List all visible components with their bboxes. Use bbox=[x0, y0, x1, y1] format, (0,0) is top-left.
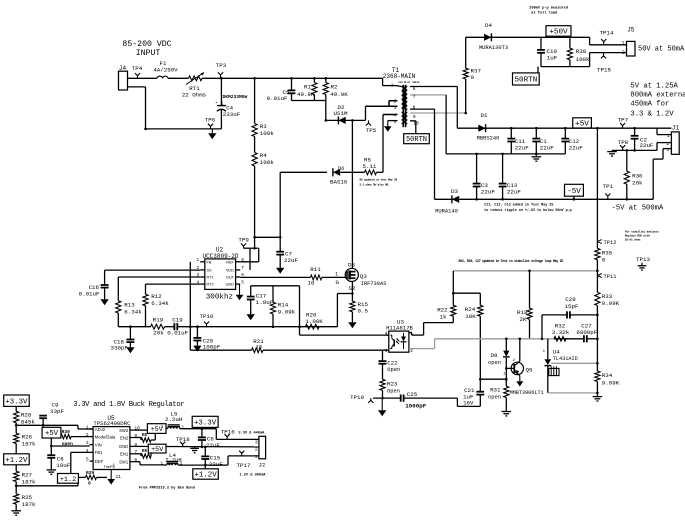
svg-text:0: 0 bbox=[602, 256, 606, 263]
svg-text:3.3 & 1.2V: 3.3 & 1.2V bbox=[630, 110, 674, 118]
svg-text:to reduce ripple on +/-5V to b: to reduce ripple on +/-5V to below 50mV … bbox=[484, 208, 572, 213]
svg-text:0.5: 0.5 bbox=[358, 308, 369, 315]
svg-text:49.9K: 49.9K bbox=[330, 91, 348, 98]
svg-text:-5V: -5V bbox=[567, 188, 581, 196]
svg-text:22uF: 22uF bbox=[481, 189, 495, 196]
svg-text:R38: R38 bbox=[576, 48, 587, 55]
svg-text:16V: 16V bbox=[463, 400, 474, 407]
svg-text:DEF: DEF bbox=[95, 459, 104, 464]
svg-text:Replace R35 with: Replace R35 with bbox=[625, 233, 650, 237]
svg-text:4A/250V: 4A/250V bbox=[153, 67, 178, 74]
svg-text:22uF: 22uF bbox=[209, 461, 223, 468]
svg-text:9: 9 bbox=[413, 114, 416, 120]
svg-text:3: 3 bbox=[255, 439, 258, 445]
svg-text:22uF: 22uF bbox=[640, 142, 654, 149]
svg-text:REF: REF bbox=[226, 260, 234, 264]
svg-text:3: 3 bbox=[385, 349, 388, 354]
svg-text:5.11: 5.11 bbox=[363, 163, 377, 170]
svg-text:1: 1 bbox=[221, 101, 224, 107]
svg-text:187k: 187k bbox=[22, 479, 36, 486]
svg-text:R11: R11 bbox=[310, 266, 321, 273]
svg-text:R23: R23 bbox=[387, 380, 398, 387]
svg-text:233uF: 233uF bbox=[223, 111, 241, 118]
svg-text:22 Ohms: 22 Ohms bbox=[182, 92, 206, 99]
svg-text:300khz: 300khz bbox=[206, 293, 233, 301]
svg-text:800mA externa: 800mA externa bbox=[630, 91, 685, 99]
svg-text:1: 1 bbox=[335, 272, 338, 278]
svg-text:50RTN: 50RTN bbox=[406, 136, 427, 144]
svg-text:TP10: TP10 bbox=[200, 313, 214, 320]
svg-text:845k: 845k bbox=[21, 418, 35, 425]
svg-text:4: 4 bbox=[385, 331, 388, 336]
svg-text:R25: R25 bbox=[22, 494, 33, 501]
svg-text:C19: C19 bbox=[172, 317, 183, 324]
svg-text:+5V: +5V bbox=[45, 430, 59, 438]
svg-text:3.3V and 1.8V Buck Regulator: 3.3V and 1.8V Buck Regulator bbox=[73, 401, 184, 409]
svg-text:TP17: TP17 bbox=[237, 462, 251, 469]
svg-text:RT2: RT2 bbox=[207, 283, 214, 287]
svg-text:5: 5 bbox=[394, 119, 397, 125]
svg-text:1: 1 bbox=[161, 425, 164, 430]
svg-text:Open: Open bbox=[387, 388, 400, 394]
svg-text:R27: R27 bbox=[22, 472, 33, 479]
svg-text:3: 3 bbox=[394, 105, 397, 111]
svg-text:100k: 100k bbox=[576, 56, 590, 63]
svg-text:TP11: TP11 bbox=[604, 274, 617, 280]
svg-text:+1.2V: +1.2V bbox=[195, 472, 218, 480]
svg-text:FB: FB bbox=[207, 260, 212, 264]
svg-text:0: 0 bbox=[88, 481, 91, 487]
svg-text:9.09k: 9.09k bbox=[278, 309, 296, 316]
svg-text:G: G bbox=[336, 279, 340, 286]
svg-text:INPUT: INPUT bbox=[136, 49, 161, 58]
svg-text:R24: R24 bbox=[465, 306, 476, 313]
svg-text:C22: C22 bbox=[387, 359, 398, 366]
svg-text:J2: J2 bbox=[258, 462, 265, 469]
svg-text:8: 8 bbox=[413, 104, 416, 110]
svg-text:R29: R29 bbox=[86, 470, 95, 476]
svg-text:R9: R9 bbox=[142, 450, 148, 454]
svg-text:MMBT3906LT1: MMBT3906LT1 bbox=[510, 390, 544, 396]
svg-text:0.01uF: 0.01uF bbox=[167, 330, 188, 337]
svg-text:TP12: TP12 bbox=[604, 240, 617, 246]
svg-text:TP8: TP8 bbox=[618, 139, 629, 146]
svg-text:49.9K: 49.9K bbox=[297, 91, 315, 98]
svg-text:MURA130T3: MURA130T3 bbox=[479, 45, 508, 51]
svg-text:+3.3V: +3.3V bbox=[194, 420, 217, 428]
svg-text:R36: R36 bbox=[632, 173, 643, 180]
svg-text:4: 4 bbox=[394, 113, 397, 119]
svg-text:1000pF: 1000pF bbox=[405, 403, 426, 410]
svg-text:0: 0 bbox=[471, 74, 475, 81]
svg-text:+50V: +50V bbox=[549, 29, 568, 37]
svg-text:1: 1 bbox=[86, 424, 89, 430]
svg-text:US1M: US1M bbox=[334, 110, 348, 117]
svg-text:33pF: 33pF bbox=[50, 408, 64, 415]
svg-text:R26: R26 bbox=[22, 434, 33, 441]
svg-text:200mV p-p measured: 200mV p-p measured bbox=[529, 6, 568, 11]
svg-text:330pF: 330pF bbox=[111, 345, 129, 352]
svg-text:IRF730AS: IRF730AS bbox=[361, 281, 387, 287]
svg-text:RT1: RT1 bbox=[207, 276, 214, 280]
svg-text:10: 10 bbox=[256, 345, 262, 351]
svg-text:6.34k: 6.34k bbox=[124, 308, 142, 315]
svg-text:D8: D8 bbox=[491, 352, 498, 359]
svg-text:7: 7 bbox=[241, 266, 244, 271]
svg-text:+5V: +5V bbox=[151, 446, 164, 454]
svg-text:VIN: VIN bbox=[95, 442, 102, 447]
svg-text:Q5: Q5 bbox=[526, 366, 533, 373]
svg-text:For stability analysis: For stability analysis bbox=[625, 229, 660, 233]
svg-text:R14: R14 bbox=[278, 302, 289, 309]
svg-text:TP15: TP15 bbox=[597, 67, 611, 74]
svg-text:50RTN: 50RTN bbox=[515, 77, 538, 85]
svg-text:2: 2 bbox=[622, 50, 625, 56]
svg-text:1k: 1k bbox=[440, 313, 447, 320]
svg-text:R8: R8 bbox=[142, 434, 148, 438]
svg-text:EN1: EN1 bbox=[120, 452, 129, 457]
svg-text:2: 2 bbox=[181, 425, 184, 430]
svg-text:TP4: TP4 bbox=[132, 65, 143, 72]
svg-text:22uF: 22uF bbox=[507, 189, 521, 196]
svg-text:1: 1 bbox=[161, 461, 164, 466]
svg-text:2K: 2K bbox=[520, 316, 527, 323]
svg-text:20k: 20k bbox=[632, 180, 643, 187]
svg-text:TP9: TP9 bbox=[238, 237, 249, 244]
svg-text:C11, C12, C13 added in Test Ma: C11, C12, C13 added in Test May 25 bbox=[484, 203, 553, 208]
svg-text:3: 3 bbox=[86, 440, 89, 446]
svg-text:R12: R12 bbox=[151, 293, 162, 300]
svg-text:2: 2 bbox=[410, 349, 413, 354]
svg-text:D1: D1 bbox=[481, 112, 488, 119]
svg-text:VDD: VDD bbox=[226, 269, 234, 273]
svg-text:2.2uH: 2.2uH bbox=[165, 458, 181, 464]
svg-text:9.09K: 9.09K bbox=[602, 379, 620, 386]
svg-text:22uF: 22uF bbox=[569, 144, 583, 151]
svg-text:R30: R30 bbox=[62, 429, 71, 435]
svg-text:1: 1 bbox=[197, 258, 200, 263]
svg-text:EN2: EN2 bbox=[120, 435, 129, 440]
svg-text:1: 1 bbox=[621, 41, 624, 47]
svg-text:R2: R2 bbox=[331, 84, 338, 91]
svg-text:1.2V @ 300mA: 1.2V @ 300mA bbox=[240, 472, 267, 477]
svg-text:2.2uH: 2.2uH bbox=[165, 416, 183, 423]
svg-text:MBRS240: MBRS240 bbox=[477, 136, 500, 142]
svg-text:10: 10 bbox=[308, 279, 315, 286]
svg-text:22uF: 22uF bbox=[540, 144, 554, 151]
svg-text:FB1: FB1 bbox=[95, 450, 103, 455]
svg-text:SS: SS bbox=[207, 269, 213, 273]
svg-text:3.32k: 3.32k bbox=[552, 329, 570, 336]
svg-text:+1.2V: +1.2V bbox=[5, 457, 28, 465]
svg-text:0.01uF: 0.01uF bbox=[79, 290, 100, 297]
svg-text:D3: D3 bbox=[451, 188, 458, 195]
svg-text:Open: Open bbox=[387, 367, 400, 373]
svg-text:10-01 ohms: 10-01 ohms bbox=[625, 237, 641, 241]
svg-text:10uF: 10uF bbox=[56, 462, 70, 469]
svg-text:C28: C28 bbox=[565, 296, 576, 303]
svg-text:TP3: TP3 bbox=[216, 62, 227, 69]
svg-text:1: 1 bbox=[667, 133, 670, 139]
svg-text:+3.3V: +3.3V bbox=[5, 398, 28, 406]
svg-text:TP7: TP7 bbox=[618, 116, 629, 123]
svg-text:6: 6 bbox=[413, 86, 416, 92]
svg-text:2: 2 bbox=[255, 447, 258, 453]
svg-text:187k: 187k bbox=[22, 501, 36, 508]
svg-text:6.34k: 6.34k bbox=[151, 300, 169, 307]
svg-text:R28: R28 bbox=[21, 411, 32, 418]
svg-text:R34: R34 bbox=[602, 372, 613, 379]
svg-text:-5V at 500mA: -5V at 500mA bbox=[612, 204, 664, 212]
svg-text:9.09K: 9.09K bbox=[602, 300, 620, 307]
svg-text:450mA for: 450mA for bbox=[630, 101, 669, 109]
svg-text:R13: R13 bbox=[124, 301, 135, 308]
svg-text:D4: D4 bbox=[485, 22, 492, 29]
svg-text:DKM233M5W: DKM233M5W bbox=[223, 94, 248, 100]
svg-text:100k: 100k bbox=[260, 130, 274, 137]
svg-text:J1: J1 bbox=[672, 124, 680, 131]
svg-text:Q3: Q3 bbox=[360, 273, 367, 280]
svg-text:+5V: +5V bbox=[575, 121, 589, 129]
svg-text:TP19: TP19 bbox=[350, 394, 364, 401]
svg-text:rev B or later: rev B or later bbox=[398, 80, 420, 84]
svg-text:TP1: TP1 bbox=[603, 183, 614, 190]
svg-text:22uF: 22uF bbox=[206, 442, 220, 449]
svg-text:2: 2 bbox=[394, 99, 397, 105]
svg-text:GND: GND bbox=[119, 444, 128, 449]
svg-text:2: 2 bbox=[86, 432, 89, 438]
svg-text:85-200 VDC: 85-200 VDC bbox=[122, 40, 171, 49]
svg-text:1: 1 bbox=[255, 454, 258, 460]
svg-text:15pF: 15pF bbox=[565, 303, 579, 310]
svg-text:D3: D3 bbox=[348, 261, 355, 268]
svg-text:5: 5 bbox=[86, 457, 89, 463]
svg-text:open: open bbox=[488, 395, 501, 401]
svg-text:From PMP2819.2 by Ben Bond: From PMP2819.2 by Ben Bond bbox=[139, 486, 195, 491]
svg-text:22uF: 22uF bbox=[284, 257, 298, 264]
svg-text:187k: 187k bbox=[22, 441, 36, 448]
svg-text:TP16: TP16 bbox=[221, 429, 235, 436]
svg-text:6800pF: 6800pF bbox=[576, 329, 597, 336]
svg-text:R33: R33 bbox=[602, 293, 613, 300]
svg-text:TP13: TP13 bbox=[636, 256, 650, 263]
svg-text:22uF: 22uF bbox=[515, 144, 529, 151]
svg-text:TP14: TP14 bbox=[600, 29, 614, 36]
svg-text:TL431AID: TL431AID bbox=[553, 356, 578, 362]
svg-text:R5 updated in test May 20: R5 updated in test May 20 bbox=[360, 177, 398, 181]
svg-text:2368-MAIN: 2368-MAIN bbox=[383, 73, 416, 80]
svg-text:20k: 20k bbox=[153, 330, 164, 337]
svg-text:J5: J5 bbox=[627, 27, 635, 34]
svg-text:J4: J4 bbox=[119, 65, 127, 72]
svg-text:50V at 50mA: 50V at 50mA bbox=[638, 46, 685, 54]
svg-text:TP6: TP6 bbox=[205, 117, 216, 124]
svg-text:2: 2 bbox=[666, 141, 669, 147]
svg-text:GND: GND bbox=[225, 283, 234, 287]
svg-text:3.3V @ 440mA: 3.3V @ 440mA bbox=[238, 431, 265, 436]
svg-text:TP5: TP5 bbox=[366, 127, 377, 134]
svg-text:8: 8 bbox=[241, 258, 244, 263]
svg-text:1.00K: 1.00K bbox=[305, 318, 323, 325]
svg-text:SW2: SW2 bbox=[119, 428, 129, 433]
svg-text:R32, R33, C27 updated in Test: R32, R33, C27 updated in Test to stabili… bbox=[459, 259, 564, 264]
svg-text:5: 5 bbox=[241, 280, 244, 285]
svg-text:3: 3 bbox=[666, 147, 669, 153]
svg-text:10: 10 bbox=[413, 120, 419, 126]
svg-text:+1.2: +1.2 bbox=[60, 476, 76, 484]
svg-text:OUT: OUT bbox=[226, 276, 235, 280]
svg-text:1uF: 1uF bbox=[547, 55, 558, 62]
svg-text:R31: R31 bbox=[490, 387, 501, 394]
svg-text:BAS16: BAS16 bbox=[330, 179, 348, 186]
svg-text:0.01uF: 0.01uF bbox=[267, 95, 288, 102]
svg-text:U4: U4 bbox=[553, 349, 560, 356]
svg-text:11: 11 bbox=[116, 474, 122, 480]
svg-text:R19: R19 bbox=[153, 317, 164, 324]
svg-text:10K: 10K bbox=[465, 313, 476, 320]
svg-text:+: + bbox=[215, 101, 218, 106]
svg-text:ADJ2: ADJ2 bbox=[95, 427, 106, 432]
svg-text:TP18: TP18 bbox=[176, 436, 190, 443]
svg-text:C25: C25 bbox=[407, 391, 418, 398]
svg-text:D6: D6 bbox=[338, 166, 344, 172]
svg-text:R1: R1 bbox=[304, 84, 311, 91]
svg-text:Mode/Data: Mode/Data bbox=[95, 434, 116, 439]
svg-text:at full load: at full load bbox=[531, 11, 557, 16]
svg-text:open: open bbox=[488, 360, 501, 366]
svg-text:100k: 100k bbox=[260, 159, 274, 166]
svg-text:7: 7 bbox=[413, 94, 416, 100]
svg-text:5V at 1.25A: 5V at 1.25A bbox=[630, 82, 678, 90]
svg-text:SW1: SW1 bbox=[119, 460, 129, 465]
svg-text:UCC3809-2D: UCC3809-2D bbox=[202, 253, 238, 260]
svg-text:H11A817B: H11A817B bbox=[386, 324, 413, 331]
svg-text:1: 1 bbox=[410, 331, 413, 336]
svg-text:5.1 ohms 5W also OK.: 5.1 ohms 5W also OK. bbox=[360, 183, 391, 187]
svg-text:MURA140: MURA140 bbox=[435, 209, 458, 215]
